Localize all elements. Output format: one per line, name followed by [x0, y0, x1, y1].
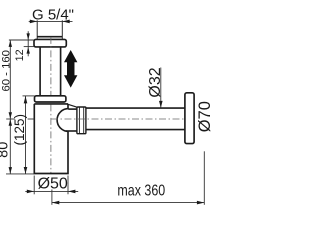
dimension (125) line	[25, 96, 27, 174]
elbow neck top	[68, 108, 77, 110]
dimension 12 extension line at nut bottom	[24, 46, 34, 48]
dimension Ø50 right arrow	[68, 190, 75, 194]
dimension Ø32 leader line	[160, 68, 162, 108]
thread extension lines (G 5/4 walls above nut)	[37, 20, 62, 40]
dimension (125) extension at nut top	[23, 95, 35, 97]
dimension G 5/4 left arrow	[30, 20, 37, 24]
elbow nut	[77, 107, 86, 134]
inlet tube top end cap	[37, 36, 62, 38]
ball elbow dome	[57, 109, 68, 132]
vertical centerline of body	[50, 37, 52, 173]
lower union nut	[35, 96, 66, 102]
svg-text:(125): (125)	[12, 114, 27, 146]
dimension 80 line	[9, 119, 11, 174]
inlet tube walls	[40, 47, 61, 96]
chamfer body to elbow nut	[67, 104, 77, 107]
dimension (125) bottom arrow	[24, 167, 28, 174]
elbow nut inner line left	[78, 107, 80, 133]
dimension max 360 line	[52, 202, 204, 204]
dimension max 360 left extension	[51, 190, 53, 205]
wall rosette flange	[185, 93, 194, 144]
svg-text:Ø50: Ø50	[38, 176, 68, 193]
dimension 60-160 line	[9, 40, 11, 119]
dimension 12 line	[27, 31, 29, 56]
dimension 12 top arrow	[27, 33, 30, 39]
svg-text:G 5/4": G 5/4"	[32, 6, 74, 23]
svg-text:60 - 160: 60 - 160	[0, 50, 12, 91]
svg-text:12: 12	[14, 49, 26, 61]
dimension 12 bottom arrow	[27, 47, 30, 53]
dimension 80 bottom arrow	[9, 167, 12, 174]
dimension (125) top arrow	[24, 96, 28, 103]
svg-text:80: 80	[0, 142, 12, 158]
dimension max 360 left arrow	[52, 201, 59, 205]
outlet axis extension to left (segment at body)	[28, 118, 35, 120]
body bottom extension to left	[6, 173, 34, 175]
elbow neck bottom	[66, 130, 77, 132]
bottle body	[34, 104, 68, 174]
svg-text:Ø32: Ø32	[147, 67, 164, 97]
dimension 60-160 bottom arrow	[9, 112, 12, 119]
outlet axis extension to left (tick at dim line)	[6, 118, 15, 120]
dimension G 5/4 line	[29, 20, 73, 22]
outlet tube	[86, 108, 185, 130]
dimension 12 extension line at nut top	[9, 39, 34, 41]
dimension Ø50 extension lines	[34, 176, 68, 195]
dimension Ø50 line	[25, 190, 78, 192]
outlet axis centerline	[51, 118, 186, 120]
elbow nut inner line right	[83, 107, 85, 133]
dimension 60-160 top arrow	[9, 40, 12, 47]
dimension max 360 right arrow	[197, 201, 204, 205]
dimension Ø32 arrow	[159, 101, 163, 108]
dimension 80 top arrow	[9, 119, 12, 126]
svg-text:max 360: max 360	[117, 182, 165, 200]
dimension Ø50 left arrow	[27, 190, 34, 194]
adjustability double arrow	[64, 50, 77, 88]
dimension G 5/4 right arrow	[62, 20, 69, 24]
svg-text:Ø70: Ø70	[196, 101, 214, 132]
dimension max 360 right extension	[203, 151, 205, 205]
top union nut	[34, 39, 66, 47]
